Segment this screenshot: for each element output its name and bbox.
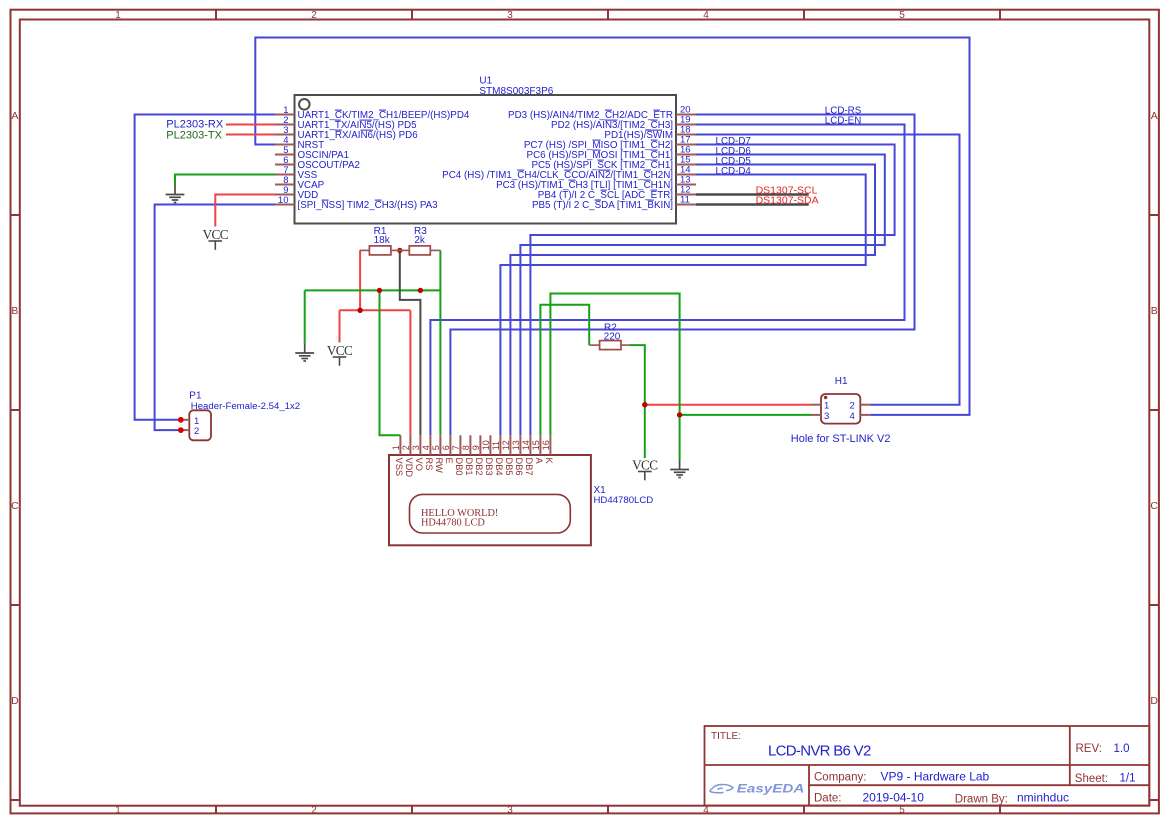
svg-text:1: 1 [391, 445, 401, 450]
svg-text:Header-Female-2.54_1x2: Header-Female-2.54_1x2 [191, 401, 300, 412]
svg-text:4: 4 [850, 411, 855, 422]
svg-text:TITLE:: TITLE: [711, 731, 741, 742]
svg-text:A: A [11, 110, 18, 122]
svg-text:PL2303-TX: PL2303-TX [166, 129, 222, 141]
svg-text:LCD-NVR B6 V2: LCD-NVR B6 V2 [768, 743, 871, 760]
svg-text:1: 1 [115, 10, 121, 21]
svg-text:5: 5 [899, 10, 905, 21]
svg-text:RW: RW [434, 458, 444, 474]
svg-text:A: A [534, 458, 544, 465]
svg-text:VDD: VDD [404, 458, 414, 478]
svg-text:D: D [1150, 695, 1158, 707]
svg-text:DB5: DB5 [504, 458, 514, 476]
svg-text:PB5 (T)/I 2 C_SDA [TIM1_BKIN]: PB5 (T)/I 2 C_SDA [TIM1_BKIN] [532, 200, 673, 211]
svg-text:RS: RS [424, 458, 434, 471]
svg-text:HD44780 LCD: HD44780 LCD [421, 517, 485, 528]
svg-text:DB4: DB4 [494, 458, 504, 476]
svg-text:2: 2 [311, 10, 317, 21]
svg-text:Hole for ST-LINK V2: Hole for ST-LINK V2 [791, 433, 891, 445]
svg-text:9: 9 [471, 445, 481, 450]
svg-text:C: C [1150, 500, 1158, 512]
svg-text:2k: 2k [414, 235, 426, 246]
svg-text:1: 1 [115, 805, 121, 816]
svg-text:2: 2 [194, 426, 199, 437]
svg-text:10: 10 [278, 195, 289, 206]
svg-text:LCD-EN: LCD-EN [825, 116, 861, 127]
svg-text:DB3: DB3 [484, 458, 494, 476]
svg-text:DB2: DB2 [474, 458, 484, 476]
svg-text:[SPI_NSS] TIM2_CH3/(HS) PA3: [SPI_NSS] TIM2_CH3/(HS) PA3 [298, 200, 439, 211]
svg-text:H1: H1 [835, 376, 848, 387]
svg-text:3: 3 [507, 805, 513, 816]
svg-text:11: 11 [491, 441, 501, 450]
svg-text:VCC: VCC [203, 227, 229, 242]
svg-text:DB1: DB1 [464, 458, 474, 476]
svg-text:K: K [544, 458, 554, 465]
svg-text:U1: U1 [479, 76, 492, 87]
svg-text:2019-04-10: 2019-04-10 [863, 791, 925, 805]
svg-text:11: 11 [680, 195, 690, 206]
svg-text:3: 3 [507, 10, 513, 21]
svg-text:E: E [444, 458, 454, 464]
svg-text:2: 2 [850, 401, 855, 412]
svg-text:2: 2 [401, 445, 411, 450]
svg-text:18k: 18k [374, 235, 391, 246]
svg-text:REV:: REV: [1076, 743, 1102, 755]
svg-text:10: 10 [481, 440, 491, 450]
svg-text:DB6: DB6 [514, 458, 524, 476]
svg-text:Company:: Company: [814, 772, 866, 784]
svg-text:HD44780LCD: HD44780LCD [594, 495, 654, 506]
svg-text:4: 4 [703, 805, 709, 816]
svg-text:1/1: 1/1 [1120, 773, 1136, 785]
svg-text:12: 12 [501, 440, 511, 450]
svg-text:4: 4 [703, 10, 709, 21]
svg-text:14: 14 [521, 440, 531, 450]
svg-text:8: 8 [461, 445, 471, 450]
svg-text:VO: VO [414, 458, 424, 471]
svg-text:6: 6 [441, 445, 451, 450]
svg-text:5: 5 [899, 805, 905, 816]
svg-text:VP9 - Hardware Lab: VP9 - Hardware Lab [881, 770, 990, 784]
svg-text:VCC: VCC [632, 458, 658, 473]
svg-text:13: 13 [511, 440, 521, 450]
svg-text:2: 2 [311, 805, 317, 816]
svg-text:LCD-D4: LCD-D4 [716, 166, 752, 177]
svg-text:C: C [11, 500, 19, 512]
svg-text:Drawn By:: Drawn By: [955, 794, 1008, 806]
svg-text:16: 16 [541, 440, 551, 450]
svg-text:EasyEDA: EasyEDA [737, 781, 805, 795]
svg-text:4: 4 [421, 445, 431, 450]
svg-text:DS1307-SDA: DS1307-SDA [756, 195, 819, 207]
svg-text:5: 5 [431, 445, 441, 450]
svg-text:D: D [11, 695, 19, 707]
svg-text:DB7: DB7 [524, 458, 534, 476]
svg-text:VCC: VCC [327, 343, 353, 358]
svg-text:DB0: DB0 [454, 458, 464, 476]
svg-text:nminhduc: nminhduc [1017, 791, 1069, 805]
svg-text:1.0: 1.0 [1114, 743, 1130, 755]
svg-text:3: 3 [411, 445, 421, 450]
svg-text:B: B [11, 305, 18, 317]
svg-text:A: A [1151, 110, 1158, 122]
svg-text:VSS: VSS [394, 458, 404, 477]
svg-text:1: 1 [824, 401, 829, 412]
svg-text:B: B [1151, 305, 1158, 317]
svg-text:3: 3 [824, 411, 829, 422]
svg-text:Sheet:: Sheet: [1075, 773, 1108, 785]
svg-text:15: 15 [531, 440, 541, 450]
svg-text:Date:: Date: [814, 793, 842, 805]
svg-text:7: 7 [451, 445, 461, 450]
svg-text:STM8S003F3P6: STM8S003F3P6 [479, 86, 553, 97]
svg-text:220: 220 [604, 332, 621, 343]
